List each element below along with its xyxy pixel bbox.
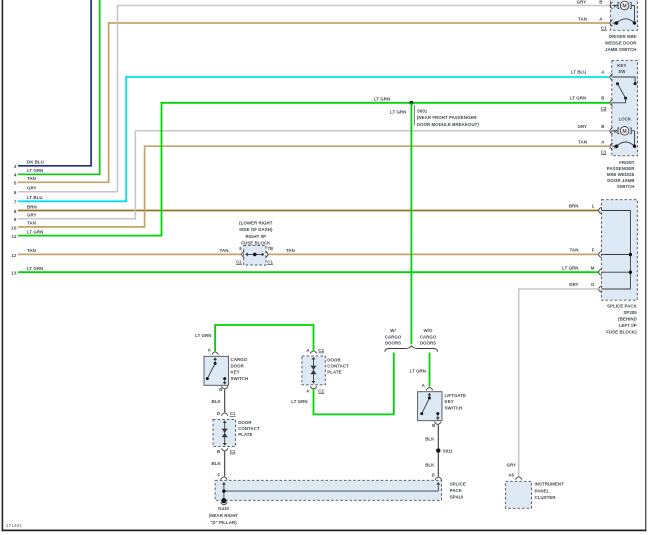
pin 10 wire label TAN [27, 221, 36, 226]
pin 9 wire label GRY [27, 213, 37, 218]
cargo door key switch box [204, 356, 229, 385]
svg-text:11: 11 [12, 234, 17, 239]
page right border [645, 0, 647, 531]
connector arc SP410 F [221, 477, 228, 480]
svg-text:CONTACT: CONTACT [327, 364, 349, 369]
pin D contact plate C1 [217, 411, 220, 416]
pin 11 wire label LT GRN [27, 229, 43, 234]
svg-text:SWITCH: SWITCH [617, 184, 635, 189]
wire LT GRN brace to liftgate [429, 353, 431, 387]
svg-text:DOOR MODULE BREAKOUT): DOOR MODULE BREAKOUT) [417, 122, 480, 127]
svg-text:DOOR JAMB: DOOR JAMB [607, 178, 634, 183]
svg-text:DOOR: DOOR [231, 363, 245, 368]
svg-text:TAN: TAN [578, 17, 587, 22]
liftgate switch contacts [420, 393, 439, 420]
svg-text:DOORS: DOORS [385, 341, 401, 346]
splice pack SP410 box [215, 480, 441, 500]
svg-text:(BEHIND: (BEHIND [618, 316, 637, 321]
svg-text:GRY: GRY [569, 282, 579, 287]
svg-text:C2: C2 [318, 388, 324, 393]
wire LT GRN S601 drop [410, 103, 412, 344]
svg-text:BRN: BRN [569, 204, 579, 209]
svg-text:SIDE OF DASH): SIDE OF DASH) [239, 227, 273, 232]
SP410 junction dot [222, 489, 225, 492]
wire GRY pin 9 to passenger jamb B [18, 131, 609, 219]
svg-text:TAN: TAN [220, 248, 229, 253]
svg-text:CONTACT: CONTACT [238, 426, 260, 431]
pin 7 wire label LT BLU [27, 195, 43, 200]
svg-text:C1: C1 [230, 449, 236, 454]
svg-text:PLATE: PLATE [238, 432, 252, 437]
svg-text:B: B [432, 423, 435, 428]
splice SP205 bus [602, 211, 631, 290]
svg-text:DRIVER MINI: DRIVER MINI [609, 34, 637, 39]
pin 3 wire label DK BLU [27, 160, 44, 165]
svg-text:S911: S911 [443, 449, 454, 454]
svg-text:MINI WEDGE: MINI WEDGE [607, 172, 635, 177]
label TAN before fuse [220, 248, 229, 253]
svg-text:SPLICE PACK: SPLICE PACK [607, 303, 638, 308]
svg-text:TAN: TAN [27, 248, 36, 253]
pin L splice [592, 204, 595, 209]
pin G splice [591, 282, 595, 287]
pin 12 wire label TAN [27, 248, 36, 253]
key sw contact A link [612, 77, 636, 85]
svg-text:F: F [217, 473, 220, 478]
wire TAN pin 5 to driver jamb A [18, 23, 609, 182]
svg-text:KEY: KEY [231, 370, 240, 375]
pin 5 wire label TAN [27, 176, 36, 181]
pin F SP410 [217, 473, 220, 478]
node S911 junction [436, 448, 440, 452]
svg-text:SW: SW [618, 69, 626, 74]
label TAN splice [570, 248, 579, 253]
svg-text:BLK: BLK [425, 463, 435, 468]
page bottom border [2, 529, 647, 531]
svg-text:LOCK: LOCK [619, 117, 632, 122]
svg-text:L: L [592, 204, 595, 209]
svg-text:BLK: BLK [212, 461, 222, 466]
svg-text:6: 6 [14, 190, 17, 195]
label W/O CARGO DOORS [420, 328, 437, 345]
pin K label passenger B [614, 129, 618, 134]
svg-text:LT GRN: LT GRN [374, 96, 390, 101]
svg-text:G: G [591, 282, 595, 287]
wire LT BLU pin 7 to key sw A [18, 77, 609, 201]
svg-text:C2: C2 [318, 348, 324, 353]
label LT GRN below S601 [390, 109, 406, 114]
passenger door switch box [612, 60, 638, 156]
svg-text:SWITCH: SWITCH [445, 405, 463, 410]
passenger jamb right link [634, 131, 636, 146]
motor M driver jamb [612, 1, 634, 10]
label LT GRN cargo key [195, 333, 211, 338]
svg-text:TAN: TAN [286, 248, 295, 253]
pin 12 number [11, 253, 17, 258]
wire BRN pin 8 to splice L [18, 210, 599, 212]
svg-text:BLK: BLK [425, 436, 435, 441]
pin A liftgate switch [422, 383, 426, 388]
svg-text:LT GRN: LT GRN [410, 369, 426, 374]
svg-text:TAN: TAN [27, 176, 36, 181]
pin 4 wire label LT GRN [27, 168, 43, 173]
pin 3 number [14, 164, 17, 169]
cargo key switch contacts [206, 357, 227, 384]
pin B driver jamb [599, 0, 602, 4]
svg-text:(LOWER RIGHT: (LOWER RIGHT [239, 221, 273, 226]
svg-text:A6: A6 [508, 473, 514, 478]
label LT GRN key sw [570, 96, 586, 101]
diagram id 171491 [6, 523, 22, 528]
svg-text:LT GRN: LT GRN [27, 168, 43, 173]
connector C2 fuse [236, 260, 242, 265]
pin B passenger jamb [601, 124, 604, 129]
svg-text:B: B [599, 0, 602, 4]
pin 11 number [12, 234, 17, 239]
svg-text:BLK: BLK [212, 399, 222, 404]
pin A contact plate C2 top [306, 348, 310, 353]
wire DK BLU pin 3 [18, 0, 91, 166]
connector arc G410 [221, 502, 228, 505]
svg-text:C1: C1 [601, 150, 607, 155]
svg-text:7: 7 [14, 200, 17, 205]
svg-text:GRY: GRY [27, 213, 37, 218]
wire BLK liftgate to S911 [437, 425, 439, 450]
motor M passenger jamb [612, 127, 634, 136]
connector C1 driver jamb [601, 26, 607, 31]
connector arc plate C2 top [310, 351, 317, 354]
svg-text:FUSE BLOCK): FUSE BLOCK) [606, 329, 637, 334]
connector C3 key sw [601, 106, 607, 111]
svg-text:DK BLU: DK BLU [27, 160, 44, 165]
connector arc driver jamb A [610, 20, 613, 27]
SP410 internal bus [222, 482, 440, 500]
driver jamb wedge contact [612, 19, 636, 25]
splice SP205 junction F [629, 253, 632, 256]
pin M splice [591, 265, 595, 270]
svg-text:CARGO: CARGO [231, 357, 248, 362]
svg-text:10: 10 [11, 225, 17, 230]
connector C1 plate top [230, 411, 236, 416]
svg-text:SP410: SP410 [450, 495, 464, 500]
svg-text:LT GRN: LT GRN [291, 399, 307, 404]
label LT GRN liftgate [410, 369, 426, 374]
svg-text:BRN: BRN [27, 204, 37, 209]
label door contact plate C1 [238, 420, 260, 437]
svg-text:S601: S601 [417, 109, 428, 114]
fuse block box [244, 245, 266, 265]
label S911 [443, 449, 454, 454]
label LT BLU key sw [571, 70, 587, 75]
svg-text:LT BLU: LT BLU [571, 70, 587, 75]
svg-text:M: M [622, 4, 626, 10]
instrument panel cluster box [506, 481, 532, 508]
label W/ CARGO DOORS [385, 328, 402, 345]
svg-text:WEDGE DOOR: WEDGE DOOR [605, 41, 637, 46]
connector arc plate C2 bottom [310, 386, 317, 389]
pin K label driver B [614, 4, 618, 9]
label TAN top [578, 17, 587, 22]
connector C1 passenger jamb [601, 150, 607, 155]
svg-text:DOOR: DOOR [327, 357, 341, 362]
label cargo door key switch [231, 357, 249, 381]
label LT GRN below plate C2 [291, 399, 307, 404]
connector arc key sw B [610, 100, 613, 107]
pin 10 number [11, 225, 17, 230]
connector arc splice G [599, 286, 602, 293]
svg-text:LT GRN: LT GRN [570, 96, 586, 101]
svg-text:SPLICE: SPLICE [450, 481, 466, 486]
svg-text:171491: 171491 [6, 523, 22, 528]
svg-text:KEY: KEY [445, 399, 454, 404]
svg-text:LT GRN: LT GRN [562, 265, 578, 270]
svg-text:PANEL: PANEL [535, 488, 550, 493]
pin 6 number [14, 190, 17, 195]
svg-text:CLUSTER: CLUSTER [535, 495, 557, 500]
pin 7B fuse block [267, 246, 273, 251]
pin A6 cluster [508, 473, 514, 478]
ground G410 label [209, 506, 239, 525]
svg-text:F: F [592, 248, 595, 253]
svg-text:PASSENGER: PASSENGER [607, 166, 635, 171]
svg-text:C2: C2 [236, 260, 242, 265]
pin B liftgate switch [432, 423, 435, 428]
pin A cargo key switch [208, 347, 212, 352]
pin F splice [592, 248, 595, 253]
pin B key sw [601, 96, 604, 101]
wire LT GRN plate C2 to brace [314, 353, 394, 415]
svg-text:PACK: PACK [450, 488, 463, 493]
svg-text:W/O: W/O [424, 328, 433, 333]
svg-text:LT BLU: LT BLU [27, 195, 43, 200]
svg-text:GRY: GRY [577, 124, 587, 129]
svg-text:GRY: GRY [506, 463, 516, 468]
connector arc plate C1 top [221, 413, 228, 416]
svg-text:B: B [601, 96, 604, 101]
connector arc plate C1 bottom [221, 448, 228, 451]
wire LT GRN cargo loop [215, 325, 313, 351]
label front passenger switch [607, 160, 635, 189]
connector arc fuse left [242, 251, 245, 258]
label liftgate key switch [445, 393, 467, 410]
label splice pack SP205 [606, 303, 637, 334]
svg-text:GRY: GRY [27, 186, 37, 191]
svg-text:M: M [591, 265, 595, 270]
pin B contact plate C1 [217, 449, 220, 454]
svg-text:5: 5 [14, 181, 17, 186]
ground pin dot G410 [221, 498, 226, 503]
svg-text:FRONT: FRONT [619, 160, 635, 165]
svg-text:INSTRUMENT: INSTRUMENT [535, 482, 565, 487]
svg-text:W/: W/ [390, 328, 396, 333]
wire TAN fuse block to splice F [268, 253, 599, 255]
connector arc liftgate A [426, 388, 433, 391]
svg-text:LT GRN: LT GRN [27, 266, 43, 271]
pin A key sw [601, 70, 605, 75]
pin A driver jamb [599, 17, 603, 22]
pin 8 wire label BRN [27, 204, 37, 209]
connector arc liftgate B [435, 422, 442, 425]
door contact plate C2 box [302, 356, 325, 385]
pin 7 number [14, 200, 17, 205]
svg-text:JAMB SWITCH: JAMB SWITCH [605, 47, 637, 52]
pin A contact plate C2 bottom [306, 388, 310, 393]
label door contact plate C2 [327, 357, 349, 374]
key sw lever [616, 82, 627, 99]
svg-text:B: B [217, 449, 220, 454]
svg-text:C3: C3 [601, 106, 607, 111]
label LOCK [619, 117, 632, 122]
connector arc fuse right [265, 251, 268, 258]
wire TAN pin 10 to passenger jamb A [18, 146, 609, 227]
fuse block internal wire [245, 252, 264, 256]
connector C1 plate bottom [230, 449, 236, 454]
door contact plate C1 box [213, 419, 236, 446]
connector arc splice M [599, 269, 602, 276]
svg-text:LIFTGATE: LIFTGATE [445, 393, 467, 398]
pin 5 number [14, 181, 17, 186]
connector arc SP410 D [435, 477, 442, 480]
label driver jamb switch [605, 34, 637, 52]
svg-text:M: M [622, 129, 626, 135]
svg-text:LT GRN: LT GRN [195, 333, 211, 338]
svg-text:9: 9 [14, 217, 17, 222]
svg-text:SWITCH: SWITCH [231, 376, 249, 381]
svg-text:B: B [601, 124, 604, 129]
splice SP205 junction M [629, 271, 632, 274]
svg-text:TAN: TAN [578, 140, 587, 145]
svg-text:G410: G410 [218, 506, 229, 511]
connector arc cargo key B [221, 386, 228, 389]
svg-text:TAN: TAN [570, 248, 579, 253]
svg-text:C1: C1 [267, 260, 273, 265]
wire BLK S911 to SP410 [437, 452, 439, 477]
fuse block junction dot [253, 253, 257, 257]
pin K label passenger A [614, 144, 618, 149]
connector arc passenger jamb A [610, 143, 613, 150]
label BLK above S911 [425, 436, 435, 441]
svg-text:3: 3 [14, 164, 17, 169]
wire TAN pin 12 to fuse block [18, 253, 241, 255]
label GRY top [577, 0, 587, 4]
connector arc cluster A6 [515, 477, 522, 480]
pin 9 number [14, 217, 17, 222]
pin B cargo key switch [219, 387, 222, 392]
label S601 [417, 109, 480, 127]
svg-text:8: 8 [14, 209, 17, 214]
wire GRY pin 6 to driver jamb B [18, 6, 609, 192]
wire BLK plate to SP410 [224, 452, 226, 477]
svg-text:CARGO: CARGO [420, 334, 437, 339]
wire LT GRN pin 11 to key sw B [18, 103, 609, 236]
wire GRY splice G to cluster [519, 289, 599, 476]
svg-text:FUSE BLOCK: FUSE BLOCK [241, 240, 271, 245]
connector arc driver jamb B [610, 2, 613, 9]
label GRY cluster [506, 463, 516, 468]
label GRY splice [569, 282, 579, 287]
brace [385, 346, 438, 352]
pin 13 wire label LT GRN [27, 266, 43, 271]
svg-text:LT GRN: LT GRN [390, 109, 406, 114]
svg-text:TAN: TAN [27, 221, 36, 226]
svg-text:C1: C1 [230, 411, 236, 416]
svg-text:GRY: GRY [577, 0, 587, 4]
svg-text:C1: C1 [601, 26, 607, 31]
plate C1 internal contact [222, 420, 228, 445]
wire LT GRN pin 4 [18, 0, 100, 174]
svg-text:DOOR: DOOR [238, 420, 252, 425]
svg-text:(NEAR FRONT PASSENGER: (NEAR FRONT PASSENGER [417, 115, 478, 120]
svg-text:RIGHT I/P: RIGHT I/P [245, 234, 266, 239]
pin 8 number [14, 209, 17, 214]
svg-text:13: 13 [11, 271, 17, 276]
svg-text:LT GRN: LT GRN [27, 229, 43, 234]
key sw contact B link [612, 98, 625, 103]
pin 6 wire label GRY [27, 186, 37, 191]
passenger jamb wedge contact [612, 142, 636, 148]
connector C2 plate top [318, 348, 324, 353]
connector C1 fuse [267, 260, 273, 265]
svg-text:SP205: SP205 [623, 310, 637, 315]
pin 8 fuse block [239, 246, 242, 251]
connector arc cargo key A [212, 352, 219, 355]
liftgate key switch box [418, 392, 442, 421]
pin 13 number [11, 271, 17, 276]
svg-text:LEFT I/P: LEFT I/P [619, 323, 637, 328]
label BRN splice [569, 204, 579, 209]
svg-text:CARGO: CARGO [385, 334, 402, 339]
driver jamb switch box [611, 0, 638, 30]
svg-text:DOORS: DOORS [420, 341, 436, 346]
wire BLK cargo key to plate [224, 389, 226, 412]
label fuse block location [239, 221, 273, 246]
label GRY passenger [577, 124, 587, 129]
label BLK cargo [212, 399, 222, 404]
connector arc passenger jamb B [610, 128, 613, 135]
pin D SP410 [432, 473, 435, 478]
svg-text:4: 4 [14, 173, 17, 178]
label TAN passenger [578, 140, 587, 145]
label KEY SW [617, 63, 626, 74]
connector arc splice L [599, 207, 602, 214]
connector arc splice F [599, 251, 602, 258]
pin 4 number [14, 173, 17, 178]
svg-text:PLATE: PLATE [327, 370, 341, 375]
label LT GRN splice [562, 265, 578, 270]
wire LT GRN pin 13 to splice M [18, 271, 599, 273]
label LT GRN left of S601 [374, 96, 390, 101]
connector arc key sw A [610, 74, 613, 81]
plate C2 internal contact [310, 357, 316, 384]
svg-text:(NEAR RIGHT: (NEAR RIGHT [209, 513, 239, 518]
svg-text:7B: 7B [267, 246, 273, 251]
pin K label driver A [614, 21, 618, 26]
svg-text:KEY: KEY [617, 63, 626, 68]
page left border [1, 0, 3, 531]
label BLK plate [212, 461, 222, 466]
label splice pack SP410 [450, 481, 466, 499]
pin A passenger jamb [601, 140, 605, 145]
node S601 junction dot [410, 101, 414, 105]
svg-text:D: D [217, 411, 220, 416]
svg-text:12: 12 [11, 253, 17, 258]
splice pack SP205 box [602, 200, 638, 301]
label instrument panel cluster [535, 482, 565, 500]
label TAN after fuse [286, 248, 295, 253]
label BLK below S911 [425, 463, 435, 468]
S601 leader line [413, 105, 415, 125]
svg-text:"D" PILLAR): "D" PILLAR) [210, 520, 237, 525]
